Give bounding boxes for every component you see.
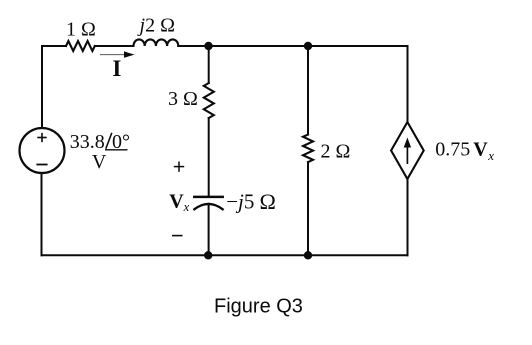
svg-text:33.8: 33.8: [70, 131, 105, 153]
dependent current source diamond: [391, 122, 424, 179]
capacitor -j5 ohm curved bottom plate: [194, 204, 222, 209]
svg-text:Vx: Vx: [169, 191, 189, 214]
inductor j2 ohm (4 humps): [134, 39, 179, 46]
wire left branch above source: [41, 46, 43, 128]
arrow inside dependent source: [404, 138, 411, 165]
svg-text:x: x: [487, 148, 494, 163]
minus sign inside voltage source: [36, 164, 47, 166]
wire right branch bottom (dependent source to bottom rail): [407, 179, 409, 255]
svg-text:Ω: Ω: [260, 189, 276, 214]
plus sign of capacitor voltage: [174, 162, 184, 172]
wire node A to node B: [209, 45, 309, 47]
svg-text:1 Ω: 1 Ω: [66, 19, 96, 41]
wire 3-ohm resistor down to capacitor: [208, 118, 210, 196]
bottom-right junction dot (2-ohm branch): [304, 251, 312, 259]
wire between 1-ohm resistor and inductor: [95, 45, 134, 47]
capacitor -j5 ohm top plate: [194, 196, 222, 199]
svg-text:−j5: −j5: [226, 190, 254, 214]
wire node A down to 3-ohm resistor: [208, 46, 210, 83]
bottom-left junction dot (capacitor branch): [204, 251, 212, 259]
svg-text:V: V: [473, 138, 488, 160]
node B junction dot: [304, 42, 312, 50]
resistor 3 ohm (vertical zigzag): [204, 83, 214, 118]
resistor 1 ohm (horizontal zigzag): [66, 41, 95, 51]
underline of phasor angle: [105, 149, 128, 151]
angle slash of phasor notation: [106, 133, 112, 149]
svg-text:j2 Ω: j2 Ω: [137, 15, 175, 37]
resistor 2 ohm (vertical zigzag): [303, 135, 313, 163]
svg-text:2 Ω: 2 Ω: [321, 140, 351, 162]
wire node B down to 2-ohm resistor: [307, 46, 309, 135]
plus sign inside voltage source: [37, 133, 46, 142]
wire inductor to node A: [178, 45, 208, 47]
svg-text:Figure Q3: Figure Q3: [214, 296, 303, 318]
wire capacitor to bottom node: [208, 204, 210, 256]
current arrow for I: [100, 51, 135, 57]
minus sign of capacitor voltage: [172, 235, 183, 237]
wire top-left from source to 1-ohm resistor: [42, 45, 66, 47]
svg-text:V: V: [92, 151, 107, 173]
wire bottom rail: [42, 254, 408, 256]
wire left branch below source: [41, 173, 43, 255]
wire node B to top-right corner: [308, 45, 408, 47]
wire right branch top (corner down to dependent source): [407, 46, 409, 122]
wire 2-ohm resistor down to bottom node: [307, 162, 309, 255]
svg-text:I: I: [112, 56, 121, 81]
node A junction dot: [204, 42, 212, 50]
svg-text:0.75: 0.75: [435, 138, 470, 160]
voltage source circle 33.8 V: [20, 128, 65, 173]
svg-text:3 Ω: 3 Ω: [168, 88, 198, 110]
